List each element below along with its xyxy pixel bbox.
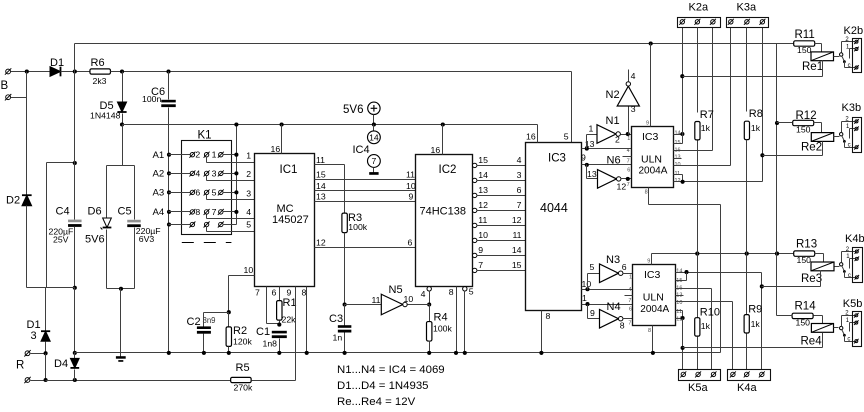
- node N2 input tap: [626, 132, 630, 136]
- svg-text:7: 7: [627, 159, 630, 165]
- relay Re4 armature: [842, 330, 845, 335]
- driver IC3 ULN2004A (lower): [633, 265, 676, 326]
- wire Re3/K4a pin3 vertical: [761, 273, 763, 370]
- node ULN2 pins 11/12 tie: [681, 316, 685, 320]
- relay Re4 pole wire: [842, 315, 856, 317]
- relay Re1 pole wire: [842, 41, 856, 43]
- svg-text:N4: N4: [607, 301, 621, 313]
- wire Re2 coil bottom: [822, 142, 824, 156]
- node K1 supply tap on 5V6 rail: [234, 122, 238, 126]
- svg-text:2k3: 2k3: [93, 76, 107, 86]
- wire switch row to IC1 pin 3: [206, 195, 208, 200]
- svg-text:R9: R9: [748, 303, 762, 315]
- svg-text:2: 2: [246, 169, 251, 179]
- svg-text:7: 7: [628, 320, 631, 326]
- svg-text:16: 16: [526, 132, 536, 142]
- wire D1 to R6 junction: [61, 71, 91, 73]
- svg-text:6V3: 6V3: [139, 234, 155, 244]
- ULN1 pin 13 floating stub: [674, 158, 682, 160]
- node R12/R14 feed: [775, 252, 779, 256]
- IC2 pin 15 output to 4044 pin 4: [473, 163, 477, 167]
- svg-text:Re2: Re2: [801, 142, 822, 154]
- relay Re2 contact pivot: [840, 133, 843, 136]
- svg-text:15: 15: [512, 260, 522, 270]
- wire Re4 coil to contact link: [834, 327, 839, 329]
- svg-text:150: 150: [796, 125, 811, 135]
- svg-text:11: 11: [478, 215, 487, 225]
- resistor R9 1k: [746, 254, 748, 315]
- relay Re3 contact pivot: [840, 263, 843, 266]
- svg-text:N1: N1: [606, 115, 620, 127]
- svg-text:14: 14: [676, 269, 682, 275]
- svg-text:A1: A1: [153, 150, 165, 161]
- relay Re1 armature: [842, 56, 845, 61]
- svg-text:C4: C4: [56, 206, 70, 218]
- node C2 tap: [227, 310, 231, 314]
- ULN2 pin 11 wire: [676, 310, 683, 312]
- svg-text:R: R: [16, 360, 24, 372]
- svg-text:R7: R7: [700, 109, 714, 121]
- svg-text:3: 3: [31, 330, 37, 342]
- ULN1 pins 4/7 floating stub: [623, 156, 632, 158]
- svg-text:4: 4: [421, 289, 426, 299]
- wire K1 common supply vertical: [236, 125, 238, 225]
- svg-text:c: c: [847, 337, 850, 343]
- wire K2a pin1 down to ULN1 pin14: [682, 28, 684, 135]
- svg-text:1: 1: [629, 275, 632, 281]
- svg-text:K1: K1: [198, 130, 212, 142]
- svg-text:C1: C1: [256, 326, 270, 338]
- node ground C6: [167, 351, 171, 355]
- wire +12V to R12/R14 vertical: [776, 44, 778, 316]
- svg-text:1N4148: 1N4148: [90, 111, 121, 121]
- svg-text:150: 150: [797, 255, 812, 265]
- svg-text:4044: 4044: [540, 201, 568, 215]
- svg-text:9: 9: [646, 121, 649, 127]
- svg-text:10: 10: [406, 181, 416, 191]
- IC2 pin 12 output to 4044 pin 7: [473, 208, 477, 212]
- svg-text:9: 9: [409, 192, 414, 202]
- svg-text:D1: D1: [27, 319, 41, 331]
- svg-text:12: 12: [617, 181, 627, 191]
- IC2 pin 9 output to 4044 pin 14: [473, 253, 477, 257]
- svg-text:10: 10: [404, 294, 414, 304]
- relay Re2 NO contact: [850, 128, 856, 130]
- svg-text:7: 7: [628, 298, 631, 304]
- svg-text:Re3: Re3: [801, 273, 822, 285]
- svg-text:A2: A2: [153, 169, 165, 180]
- wire zener block top edge: [107, 165, 135, 167]
- svg-text:14: 14: [675, 130, 681, 136]
- svg-text:15: 15: [675, 140, 681, 146]
- svg-text:11: 11: [372, 295, 381, 305]
- node D4 top: [73, 351, 77, 355]
- svg-text:1k: 1k: [701, 123, 711, 133]
- svg-text:D4: D4: [54, 358, 68, 370]
- svg-text:R1: R1: [283, 297, 297, 309]
- svg-text:100k: 100k: [348, 222, 367, 232]
- svg-text:5: 5: [246, 220, 251, 230]
- wire B vertical: [26, 72, 28, 195]
- svg-text:N6: N6: [607, 154, 621, 166]
- svg-text:3: 3: [212, 168, 217, 178]
- wire vertical through C4: [74, 72, 76, 220]
- ULN2 pin 12 wire: [676, 318, 683, 320]
- svg-text:C5: C5: [118, 206, 132, 218]
- svg-text:N1...N4 = IC4 = 4069: N1...N4 = IC4 = 4069: [337, 364, 445, 376]
- svg-text:B: B: [1, 80, 9, 92]
- svg-text:2004A: 2004A: [639, 166, 668, 177]
- node R12 feed: [775, 121, 779, 125]
- wire tap to ground rail: [120, 289, 122, 353]
- svg-text:13: 13: [478, 185, 488, 195]
- input terminal R (lower pin): [25, 378, 30, 383]
- svg-text:10: 10: [675, 162, 681, 168]
- node Re1 coil branch: [680, 74, 684, 78]
- svg-text:R8: R8: [749, 108, 763, 120]
- svg-text:D1...D4 = 1N4935: D1...D4 = 1N4935: [337, 380, 429, 392]
- wire junction up to +12V top rail: [74, 44, 76, 72]
- svg-text:2: 2: [615, 134, 620, 144]
- svg-text:6: 6: [517, 185, 522, 195]
- svg-text:9: 9: [590, 308, 595, 318]
- svg-text:2004A: 2004A: [640, 304, 669, 315]
- svg-text:13: 13: [675, 154, 681, 160]
- node bottom rail left: [44, 378, 48, 382]
- ULN2 pin 13 floating stub: [676, 295, 684, 297]
- svg-text:6: 6: [408, 238, 413, 248]
- ULN2 pin 15 wire: [676, 280, 687, 282]
- svg-text:R10: R10: [700, 306, 720, 318]
- node top-rail junction: [73, 69, 77, 73]
- node C4 top: [73, 161, 77, 165]
- node C2 ground: [202, 351, 206, 355]
- svg-text:A4: A4: [153, 207, 165, 218]
- node C3 ground: [343, 351, 347, 355]
- inverter N3 (IC4 5-6): [587, 274, 589, 290]
- svg-text:K5a: K5a: [688, 382, 708, 394]
- wire D5 node down to zener/C5 block: [122, 125, 124, 166]
- svg-text:12: 12: [478, 200, 488, 210]
- node B junction: [25, 69, 29, 73]
- svg-text:6: 6: [622, 262, 627, 272]
- ULN1 pin 16 wire to K2a pin3: [674, 150, 713, 152]
- svg-text:1n8: 1n8: [263, 338, 278, 348]
- wire Re1 coil feed: [683, 76, 823, 78]
- svg-text:R14: R14: [795, 301, 817, 313]
- node R2 ground: [227, 351, 231, 355]
- svg-text:K3b: K3b: [842, 102, 862, 114]
- svg-text:R13: R13: [796, 239, 817, 251]
- node Re4 coil branch: [681, 346, 685, 350]
- svg-text:1: 1: [246, 151, 251, 161]
- IC2 pin 13 output to 4044 pin 6: [473, 193, 477, 197]
- svg-text:7: 7: [372, 156, 377, 166]
- svg-text:K5b: K5b: [843, 298, 863, 310]
- svg-text:14: 14: [478, 170, 488, 180]
- connector K5a: [679, 370, 721, 381]
- svg-text:IC4: IC4: [353, 144, 370, 156]
- +12V top rail: [75, 43, 794, 45]
- IC4 pin 7 ground circle: [368, 155, 381, 168]
- svg-text:8: 8: [645, 189, 648, 195]
- svg-text:13: 13: [316, 192, 326, 202]
- inverter N1 (IC4 1-2): [586, 135, 588, 149]
- svg-text:1k: 1k: [701, 321, 711, 331]
- wire K3a pin3 / Re2 vertical: [762, 28, 764, 182]
- svg-text:4: 4: [517, 155, 522, 165]
- node Re2 coil branch: [760, 153, 764, 157]
- node C1 ground: [277, 351, 281, 355]
- node C4 bottom: [73, 286, 77, 290]
- svg-text:C3: C3: [329, 313, 343, 325]
- svg-text:8: 8: [546, 311, 551, 321]
- wire pin12 node down to K5a pin1: [682, 319, 684, 370]
- svg-text:IC3: IC3: [644, 269, 661, 281]
- switch row 5 (common): [167, 222, 171, 226]
- wire zener block bottom edge: [107, 288, 135, 290]
- node pins 14/15 tie: [680, 132, 684, 136]
- node 5V6 net junction under D5: [120, 122, 124, 126]
- IC2 pin 14 output to 4044 pin 3: [473, 178, 477, 182]
- relay Re3 pole wire: [842, 251, 856, 253]
- svg-text:c: c: [848, 273, 851, 279]
- svg-text:22k: 22k: [282, 314, 297, 324]
- svg-text:10: 10: [478, 230, 488, 240]
- svg-text:D2: D2: [6, 195, 20, 207]
- svg-text:1: 1: [212, 150, 217, 160]
- svg-text:K4b: K4b: [845, 233, 864, 245]
- ULN2 common 1k rail: [652, 253, 795, 255]
- wire R13 to Re3 coil: [815, 253, 824, 255]
- node N5 input: [343, 302, 347, 306]
- svg-text:16: 16: [271, 144, 281, 154]
- ground rail: [75, 352, 721, 354]
- wire drop to 4044 pin 5: [571, 72, 573, 143]
- svg-text:5: 5: [469, 287, 474, 297]
- wire Re1 coil to contact link: [834, 56, 840, 58]
- node N3 tap: [585, 287, 589, 291]
- relay Re3 coil: [811, 262, 834, 271]
- svg-text:150: 150: [796, 317, 811, 327]
- driver IC3 ULN2004A (upper): [632, 127, 674, 188]
- svg-text:ULN: ULN: [643, 292, 664, 304]
- wire C4 branch left leg: [46, 163, 48, 288]
- svg-text:150: 150: [797, 45, 812, 55]
- svg-text:8: 8: [648, 328, 651, 334]
- node R8/R9: [745, 252, 749, 256]
- node N6 tap: [585, 163, 589, 167]
- svg-text:11: 11: [406, 170, 415, 180]
- svg-text:K2a: K2a: [689, 1, 709, 13]
- wire Re4 coil feed: [683, 347, 823, 349]
- ULN2 pin 9 stub: [651, 254, 653, 265]
- wire Re3 coil bottom: [820, 271, 822, 287]
- node R junction: [44, 351, 48, 355]
- svg-text:9: 9: [647, 258, 650, 264]
- node R7/R10: [695, 252, 699, 256]
- svg-text:11: 11: [316, 155, 325, 165]
- ULN1 pin 12 wire: [674, 181, 763, 183]
- svg-text:11: 11: [512, 230, 521, 240]
- inverter N6 (IC4 13-12): [586, 165, 588, 179]
- IC4 ground symbol: [369, 172, 378, 175]
- svg-text:4: 4: [628, 287, 631, 293]
- svg-text:5V6: 5V6: [343, 104, 363, 116]
- input terminal B (lower pin): [6, 95, 11, 100]
- wire R5 to IC1 pin9: [252, 380, 296, 382]
- svg-text:145027: 145027: [272, 214, 309, 226]
- resistor R7 1k: [697, 28, 699, 113]
- relay Re2 coil: [811, 133, 833, 142]
- svg-text:14: 14: [316, 181, 326, 191]
- wire Re1 coil bottom: [822, 61, 824, 77]
- svg-text:K2b: K2b: [844, 25, 864, 37]
- ULN1 pin 10 wire to K3a pin1: [674, 165, 731, 167]
- svg-text:25V: 25V: [53, 234, 69, 244]
- wire Re2 coil to contact link: [834, 136, 840, 138]
- relay Re2 armature: [842, 136, 845, 141]
- svg-text:9: 9: [287, 288, 292, 298]
- svg-text:N3: N3: [606, 254, 620, 266]
- svg-text:3: 3: [517, 170, 522, 180]
- svg-text:8: 8: [302, 288, 307, 298]
- node pin8 ground: [305, 351, 309, 355]
- svg-text:7: 7: [627, 182, 630, 188]
- relay Re2 pole wire: [842, 121, 856, 123]
- svg-text:D6: D6: [88, 206, 102, 218]
- svg-text:c: c: [848, 63, 851, 69]
- svg-text:1k: 1k: [751, 319, 761, 329]
- svg-text:9: 9: [478, 245, 483, 255]
- node D5 tap: [120, 69, 124, 73]
- svg-text:15: 15: [676, 278, 682, 284]
- relay Re1 coil: [811, 52, 834, 61]
- svg-text:K3a: K3a: [737, 1, 757, 13]
- svg-text:6: 6: [195, 187, 200, 197]
- svg-text:5: 5: [564, 132, 569, 142]
- svg-text:R6: R6: [91, 57, 105, 69]
- input terminal R (upper pin): [25, 351, 30, 356]
- ULN2 pins 4/7 floating stub: [625, 295, 633, 297]
- svg-text:4: 4: [627, 148, 630, 154]
- svg-text:R2: R2: [233, 325, 247, 337]
- ULN1 pin 15 wire: [674, 143, 683, 145]
- svg-text:1k: 1k: [751, 123, 761, 133]
- svg-text:15: 15: [316, 170, 326, 180]
- svg-text:12: 12: [316, 238, 326, 248]
- diode D5 1N4148: [122, 72, 124, 102]
- svg-text:74HC138: 74HC138: [420, 206, 466, 218]
- node N6 output: [626, 177, 630, 181]
- svg-text:4: 4: [631, 71, 636, 81]
- svg-text:A3: A3: [153, 188, 165, 199]
- ULN1 pin 14 wire: [674, 134, 683, 136]
- node pins 11/12 tie: [681, 180, 685, 184]
- wire C4 bottom edge: [27, 287, 75, 289]
- demultiplexer IC2 74HC138: [416, 155, 473, 287]
- svg-text:1n: 1n: [333, 332, 343, 342]
- ULN2 pin 14 wire to Re3: [676, 272, 762, 274]
- wire Re3 coil to contact link: [835, 266, 840, 268]
- svg-text:3: 3: [246, 188, 251, 198]
- node 5V6 rail: [372, 122, 376, 126]
- svg-text:3n9: 3n9: [203, 316, 216, 325]
- latch IC3 4044: [526, 143, 582, 311]
- wire R junction down: [45, 354, 47, 381]
- svg-text:2: 2: [195, 150, 200, 160]
- IC2 pin 10 output to 4044 pin 11: [473, 238, 477, 242]
- bottom rail to R5: [46, 380, 232, 382]
- svg-text:15: 15: [478, 155, 488, 165]
- wire R11 to Re1 coil: [815, 43, 822, 45]
- wire Re4 coil bottom: [822, 333, 824, 348]
- svg-text:5: 5: [590, 262, 595, 272]
- svg-text:7: 7: [517, 200, 522, 210]
- svg-text:120k: 120k: [233, 336, 252, 346]
- ULN1 pin 9 stub from +12V rail: [649, 41, 653, 45]
- node N4 tap: [585, 302, 589, 306]
- svg-text:4: 4: [195, 168, 200, 178]
- svg-text:9: 9: [581, 153, 586, 163]
- svg-text:R5: R5: [236, 362, 250, 374]
- ground symbol on rail: [120, 353, 122, 357]
- svg-text:13: 13: [587, 169, 597, 179]
- svg-text:100k: 100k: [433, 324, 452, 334]
- node ULN2 pins 14/15 tie: [684, 270, 688, 274]
- node ULN2 pin8 ground: [651, 351, 655, 355]
- connector K4a: [728, 370, 771, 381]
- svg-text:IC2: IC2: [439, 164, 457, 176]
- svg-text:C2: C2: [187, 316, 201, 328]
- svg-text:IC3: IC3: [548, 153, 566, 165]
- IC2 pin 7 output to 4044 pin 15: [473, 268, 477, 272]
- node Re3 coil branch: [760, 284, 764, 288]
- svg-text:c: c: [848, 143, 851, 149]
- svg-text:100n: 100n: [142, 94, 161, 104]
- svg-text:Re1: Re1: [802, 61, 823, 73]
- ULN1 pin 11 wire: [674, 174, 683, 176]
- wire R12 to Re2 coil: [814, 122, 822, 124]
- wire switch row to IC1 pin 4: [206, 215, 208, 219]
- node pin4/N5/R4: [427, 302, 431, 306]
- IC2 pin 11 output to 4044 pin 12: [473, 223, 477, 227]
- node zener block bottom tap: [119, 287, 123, 291]
- svg-text:4: 4: [246, 207, 251, 217]
- svg-text:N5: N5: [389, 284, 403, 296]
- svg-text:1: 1: [582, 293, 587, 303]
- svg-text:6: 6: [272, 288, 277, 298]
- svg-text:5V6: 5V6: [85, 233, 105, 245]
- svg-text:8: 8: [195, 207, 200, 217]
- resistor R8 1k: [746, 28, 748, 112]
- svg-text:Re4: Re4: [801, 335, 823, 347]
- svg-text:K4a: K4a: [737, 382, 757, 394]
- dashed actuator line under K1: [182, 242, 232, 244]
- svg-text:1: 1: [627, 136, 630, 142]
- wire switch row to IC1 pin 5: [206, 227, 208, 232]
- svg-text:6: 6: [627, 167, 630, 173]
- svg-text:R4: R4: [434, 312, 448, 324]
- node R1/C1: [277, 323, 281, 327]
- relay Re4 coil: [811, 324, 833, 333]
- node N1 tap: [585, 147, 589, 151]
- relay Re4 contact pivot: [840, 326, 843, 329]
- wire switch row to IC1 pin 2: [206, 176, 208, 181]
- svg-text:7: 7: [478, 260, 483, 270]
- svg-text:12: 12: [512, 215, 522, 225]
- svg-text:10: 10: [244, 265, 254, 275]
